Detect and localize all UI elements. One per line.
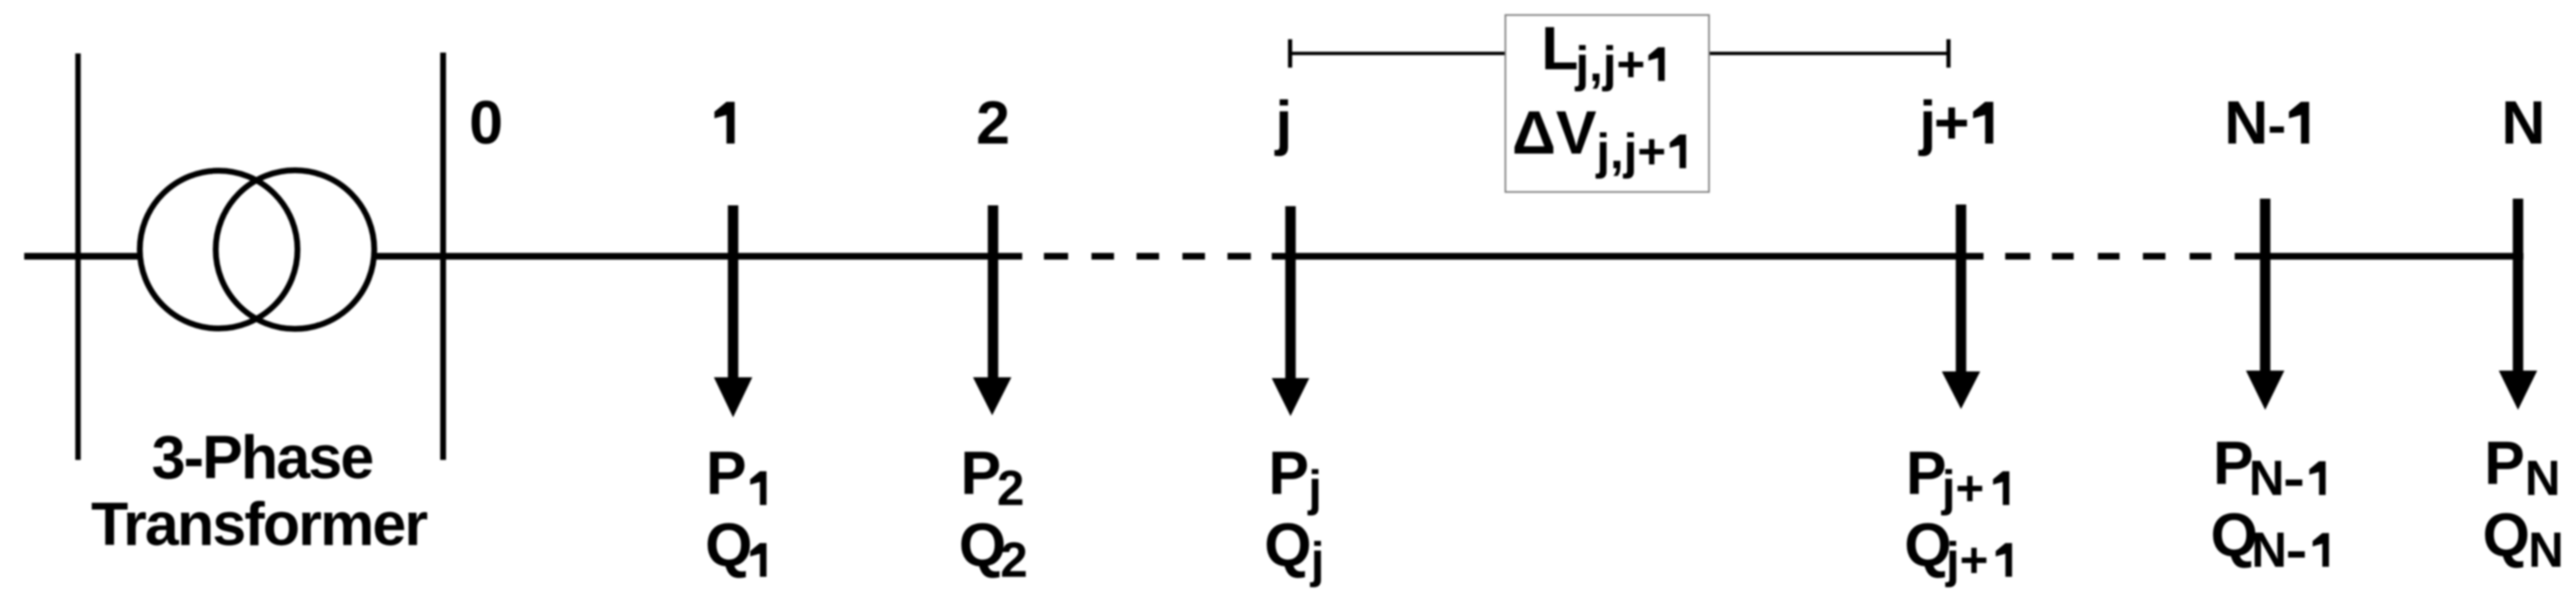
3-phase transformer secondary winding [216, 170, 375, 329]
load arrow node j [1272, 206, 1309, 417]
svg-text:N: N [2502, 89, 2546, 157]
svg-text:j,j+: j,j+ [1596, 124, 1666, 179]
line parameter box [1505, 15, 1709, 192]
svg-text:3-Phase: 3-Phase [152, 424, 373, 492]
svg-text:L: L [1541, 15, 1579, 83]
line length value label Lj,j+1 [1541, 15, 1665, 92]
voltage drop value label dVj,j+1 [1512, 99, 1686, 179]
svg-text:P2: P2 [960, 440, 1025, 516]
svg-text:P: P [2213, 430, 2254, 497]
line length dimension left segment [1290, 52, 1505, 55]
svg-text:N: N [2251, 523, 2287, 578]
svg-text:2: 2 [976, 89, 1011, 157]
svg-text:N: N [2249, 451, 2285, 506]
svg-text:P: P [1906, 440, 1947, 507]
svg-text:Transformer: Transformer [91, 491, 428, 558]
wire dashed node 2 to node j [1044, 253, 1251, 260]
line length dimension right segment [1709, 52, 1948, 55]
load QN-1 label [2211, 502, 2329, 578]
node j+1 label [1918, 89, 1994, 157]
dimension tick at node j [1288, 39, 1293, 68]
load arrow node N [2499, 199, 2538, 410]
load P1 label [706, 440, 767, 507]
load arrow node N-1 [2246, 199, 2285, 410]
load Q1 label [705, 512, 767, 579]
svg-text:j+: j+ [1945, 533, 1989, 588]
load arrow node j+1 [1942, 204, 1980, 409]
svg-text:P: P [706, 440, 747, 507]
svg-text:+: + [1934, 89, 1970, 157]
svg-text:0: 0 [469, 89, 503, 157]
load arrow node 2 [973, 205, 1011, 416]
svg-text:QN: QN [2483, 502, 2563, 578]
svg-text:PN: PN [2484, 430, 2560, 506]
svg-text:Q: Q [705, 512, 753, 579]
svg-text:j+: j+ [1941, 461, 1984, 516]
bus 0 bar [441, 53, 446, 460]
load Pj+1 label [1906, 440, 2009, 516]
load Qj+1 label [1904, 512, 2012, 588]
wire dashed node j+1 to node N-1 [2005, 253, 2258, 260]
svg-text:Qj: Qj [1264, 512, 1324, 588]
dimension tick at node j+1 [1947, 39, 1951, 68]
svg-text:j,j+: j,j+ [1575, 37, 1646, 92]
wire transformer to node 2 [374, 253, 1022, 260]
node 1 label [714, 102, 734, 144]
load arrow node 1 [714, 205, 753, 417]
node N-1 label [2225, 89, 2310, 157]
load PN-1 label [2213, 430, 2326, 506]
svg-text:ΔV: ΔV [1512, 99, 1596, 167]
svg-text:Q: Q [1904, 512, 1952, 579]
svg-text:Q2: Q2 [959, 512, 1028, 588]
svg-text:N: N [2225, 89, 2269, 157]
source lead wire [24, 253, 142, 260]
3-phase transformer primary winding [140, 171, 298, 329]
svg-text:Pj: Pj [1268, 440, 1322, 516]
wire node N-1 to node N [2258, 253, 2523, 260]
wire node j to node j+1 [1272, 253, 1984, 260]
source-side bus bar [75, 53, 81, 460]
svg-text:j: j [1273, 89, 1292, 157]
